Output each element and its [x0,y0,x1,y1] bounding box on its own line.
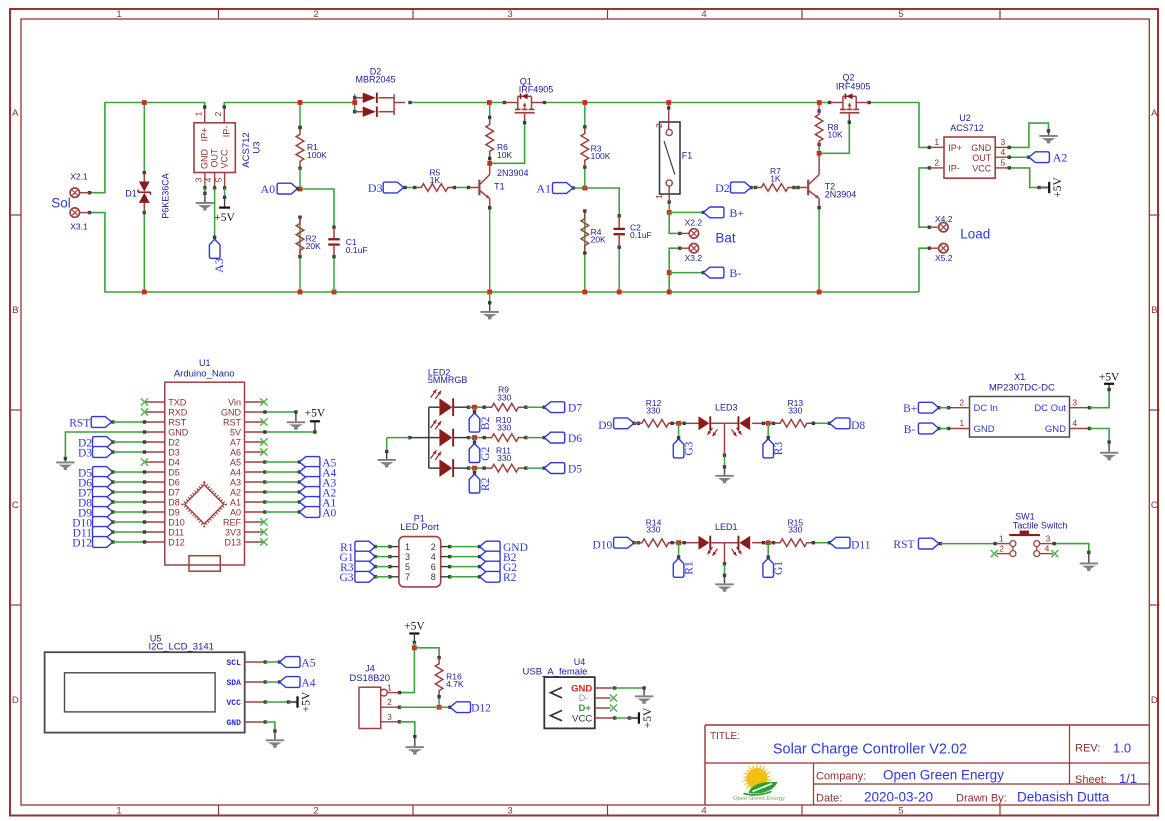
svg-text:RST: RST [223,417,242,427]
svg-text:X4.2: X4.2 [935,214,953,224]
svg-text:VCC: VCC [220,149,230,169]
wire T2 emitter to ground rail [818,208,820,292]
svg-text:1.0: 1.0 [1113,741,1131,756]
svg-text:2: 2 [213,111,223,116]
svg-text:D5: D5 [168,467,180,477]
svg-text:+5V: +5V [642,707,654,728]
svg-text:GND: GND [200,149,210,170]
net flag D3 [383,182,404,193]
svg-text:D-: D- [579,693,589,703]
wire D1 bottom stub [143,213,145,292]
svg-text:1: 1 [959,418,964,428]
svg-text:D1: D1 [125,188,137,198]
svg-text:D9: D9 [598,420,612,432]
connector pad X2.2 [689,229,698,238]
TVS diode D1 [143,173,145,182]
net flag R1 (below left) [678,543,680,557]
X1 pin 1 GND [949,428,970,430]
net flag D7 (U1) [93,487,114,498]
net flag D8 (U1) [93,497,114,508]
svg-text:2: 2 [313,806,318,817]
MOSFET Q2 IRF4905 [828,101,831,104]
wire T1 emitter to ground rail [489,208,491,292]
svg-text:D4: D4 [168,457,180,467]
U5 pins SCL SDA VCC GND [245,661,266,663]
svg-text:7: 7 [405,572,410,582]
ground at main rail [489,303,491,311]
svg-text:GND: GND [974,424,995,435]
svg-text:+5V: +5V [305,407,326,419]
net flag G2 (LED2) [474,438,476,443]
net flag A2 [1029,152,1050,163]
svg-text:2N3904: 2N3904 [497,168,529,178]
LED LED1 right diode [739,536,750,550]
svg-text:A1: A1 [230,497,241,507]
svg-text:2: 2 [313,9,318,20]
wire D2 cathode to Q1 source [410,102,505,104]
capacitor C2 [618,216,620,229]
wire F1 top stub [668,103,670,110]
svg-text:GND: GND [971,143,992,153]
wire R6 top stub [489,103,491,118]
LED LED3 left diode [699,416,710,430]
resistor R1 [296,128,304,167]
svg-text:Load: Load [960,227,990,242]
wire R15 to D11 [813,542,829,544]
svg-text:3: 3 [1072,397,1077,407]
svg-text:5MMRGB: 5MMRGB [428,375,468,385]
transistor T2 2N3904 [798,187,807,189]
svg-text:1: 1 [194,111,204,116]
svg-text:USB_A_female: USB_A_female [523,666,588,677]
wire Q2 drain to U2 IP+ [869,103,929,148]
ground at LED1 [724,575,726,583]
svg-text:D5: D5 [568,463,582,475]
svg-text:2: 2 [387,697,392,707]
svg-text:U1: U1 [199,358,211,368]
wire LED3 junction left [672,422,684,424]
connector J4 box [359,687,381,728]
net flag D12 [450,702,471,713]
svg-text:SCL: SCL [226,659,241,668]
svg-text:T1: T1 [494,182,505,192]
ground at LED3 [724,467,726,475]
svg-text:C: C [1151,500,1158,511]
svg-text:SDA: SDA [226,679,241,688]
net flag D3 (U1) [93,447,114,458]
svg-text:A1: A1 [536,181,551,195]
net flag A1 (U1) [263,500,266,503]
diode D2 MBR2045 [355,97,363,99]
svg-text:+5V: +5V [1099,371,1120,383]
svg-text:D10: D10 [168,517,185,527]
U4 chevrons [551,688,563,698]
svg-text:X2.1: X2.1 [70,172,88,182]
svg-text:ACS712: ACS712 [241,132,252,167]
connector pad X3.1 [70,208,79,217]
net flag B2 (P1 right) [450,556,480,558]
frame column tick marks [218,9,220,19]
svg-text:GND: GND [221,407,242,417]
wire LED3 junction right [752,422,763,424]
svg-text:4: 4 [1045,544,1050,554]
svg-text:U3: U3 [251,141,262,153]
wire Q1 drain rail to Q2 source [544,102,829,104]
net flag A5 (U5) [280,657,301,668]
wire SW1 pin3 to ground [1054,544,1089,553]
ground at X1 [1108,442,1110,452]
wire U3 VCC stub [224,188,226,197]
wire SDA to A4 [265,681,279,683]
svg-text:IRF4905: IRF4905 [836,81,871,91]
ground at U4 [643,688,645,695]
svg-text:X3.1: X3.1 [70,222,88,232]
svg-text:1: 1 [405,542,410,552]
svg-text:D3: D3 [368,181,383,195]
ground at J4 [414,737,416,747]
U1 left pins [145,401,165,403]
svg-text:B: B [1151,305,1157,316]
svg-text:+5V: +5V [301,691,313,712]
svg-text:OUT: OUT [972,153,992,163]
svg-text:5V: 5V [230,427,241,437]
LED LED1 left diode [699,536,710,550]
J4 pin 1 [381,689,388,696]
wire LED1 junction left [672,542,684,544]
net flag A0 [277,183,298,194]
svg-text:1K: 1K [430,175,441,185]
svg-text:LED1: LED1 [715,522,738,532]
wire R2 column [299,168,301,189]
wire battery node to X2.2 [669,212,680,233]
svg-text:2N3904: 2N3904 [825,190,857,200]
+5V at U3 VCC [224,197,226,207]
svg-text:A6: A6 [230,447,241,457]
svg-text:A5: A5 [301,657,315,669]
svg-text:GND: GND [226,719,241,728]
wire D5 to flag [526,467,544,469]
svg-text:330: 330 [788,525,802,535]
connector pad X4.2 [939,223,948,232]
wire R3 top stub [584,103,586,127]
svg-text:Open Green Energy: Open Green Energy [883,768,1004,783]
svg-text:+5V: +5V [404,621,425,633]
svg-text:D: D [1151,695,1158,706]
svg-text:G3: G3 [683,441,695,455]
net flag R2 (LED2) [474,468,476,473]
svg-text:Tactile Switch: Tactile Switch [1013,521,1068,531]
svg-text:B-: B- [904,424,916,436]
wire R1 top stub [299,103,301,128]
wire X1 GND to ground [1090,429,1110,443]
net flag G2 (P1 right) [450,566,480,568]
U1 MCU diamond symbol [183,483,226,526]
svg-text:MP2307DC-DC: MP2307DC-DC [989,382,1055,393]
svg-text:4: 4 [701,9,706,20]
connector pad X3.2 [689,244,698,253]
svg-text:RST: RST [893,539,914,551]
wire U1 GND to ground [65,432,144,459]
svg-text:Arduino_Nano: Arduino_Nano [174,369,235,380]
net flag A4 (U5) [280,677,301,688]
resistor R5 [415,184,454,192]
svg-text:3: 3 [507,806,512,817]
svg-text:1: 1 [654,194,664,199]
svg-text:A4: A4 [301,677,315,689]
net flag D10 (U1) [93,517,114,528]
wire D2 anode tie [354,94,356,113]
svg-text:X5.2: X5.2 [935,253,953,263]
svg-text:4: 4 [431,552,436,562]
svg-text:G2: G2 [480,447,492,461]
svg-text:3: 3 [405,552,410,562]
svg-text:3: 3 [507,9,512,20]
svg-text:3: 3 [387,712,392,722]
wire LED2 common [428,407,430,468]
wire J4 pin2 to D12 flag [400,706,451,708]
svg-text:ACS712: ACS712 [950,123,984,133]
resistor R15 [774,539,813,547]
svg-text:0.1uF: 0.1uF [346,245,368,255]
U4 pin D- [595,697,611,699]
svg-text:D3: D3 [78,447,92,459]
wire D1 top stub [143,103,145,173]
svg-text:Open Green Energy: Open Green Energy [733,796,785,802]
svg-text:D13: D13 [224,537,241,547]
svg-text:3: 3 [1001,137,1006,147]
wire R6 gate link [490,123,525,164]
wire U1 5V to +5V [265,431,315,433]
svg-text:5: 5 [1001,158,1006,168]
wire VCC to +5V [265,701,288,703]
svg-text:Date:: Date: [816,793,842,805]
net flag G3 (below left) [678,423,680,437]
svg-text:A5: A5 [230,457,241,467]
svg-text:20K: 20K [591,235,606,245]
net flag D8 [830,418,851,429]
svg-text:RXD: RXD [168,407,188,417]
svg-text:R2: R2 [503,572,517,584]
net flag D7 (LED2) [544,402,565,413]
svg-text:A4: A4 [230,467,241,477]
U3 pin 4 OUT [214,173,216,188]
svg-text:A7: A7 [230,437,241,447]
svg-text:TITLE:: TITLE: [710,731,740,742]
svg-text:2: 2 [934,158,939,168]
svg-text:Bat: Bat [715,231,736,246]
svg-text:1: 1 [116,9,121,20]
resistor R6 [486,118,494,157]
wire D7 to flag [526,406,544,408]
wire node B+ flag [669,211,703,213]
svg-text:330: 330 [646,525,660,535]
+5V feed (J4/R16) [409,632,419,634]
svg-text:1: 1 [116,806,121,817]
net flag D6 (U1) [93,477,114,488]
wire node A0 row [281,189,334,227]
svg-text:R1: R1 [683,561,695,575]
svg-text:X1: X1 [1014,372,1025,382]
svg-text:2020-03-20: 2020-03-20 [864,790,933,805]
wire X3.2 to B- node [669,248,680,292]
ground at U1 GND [64,459,66,462]
J4 pin 3 [381,721,400,723]
ground at U3 pin3 [204,193,206,202]
module U5 I2C_LCD box [45,652,245,732]
capacitor C1 [333,227,335,239]
P1 pins 1-8 [390,546,399,548]
wire RST to SW1 [940,543,995,545]
resistor R11 [486,464,525,472]
svg-text:4: 4 [1072,418,1077,428]
net flag RST (U1) [91,417,112,428]
fuse F1 [660,122,681,194]
U1 no-connect marks [141,398,148,405]
svg-text:D9: D9 [168,507,180,517]
svg-text:330: 330 [497,423,511,433]
svg-text:Solar Charge Controller V2.02: Solar Charge Controller V2.02 [773,742,967,758]
resistor R8 [815,108,823,147]
net flag D12 (U1) [93,537,114,548]
net flag D11 (U1) [93,527,114,538]
resistor R16 [435,658,443,697]
svg-text:RST: RST [69,417,90,429]
svg-text:D: D [12,695,19,706]
U2 pin 1 [929,146,944,148]
resistor R12 [636,420,675,428]
svg-text:10K: 10K [497,150,512,160]
wire solar- (X3.1 down to ground rail) [90,213,920,292]
svg-text:4: 4 [701,806,706,817]
svg-text:Vin: Vin [228,397,241,407]
net flag A2 (U1) [263,490,266,493]
wire R8 top stub [818,103,820,112]
wire LED2 anode to ground [410,437,429,439]
transistor T1 2N3904 [469,187,479,189]
svg-text:GND: GND [1045,424,1066,435]
svg-text:B2: B2 [480,416,492,430]
svg-text:3: 3 [194,177,204,182]
wire X1 DC Out to +5V [1090,390,1110,408]
wire U3 IP- to D2 anodes [224,103,354,109]
svg-text:A0: A0 [322,507,336,519]
svg-text:A: A [12,108,19,119]
wire F1 to battery node [668,202,670,212]
+5V at U5 VCC [289,701,298,703]
svg-text:5: 5 [898,806,903,817]
svg-text:D2: D2 [168,437,180,447]
net flag D9 (U1) [93,507,114,518]
+5V at U2 VCC [1039,186,1049,188]
LED LED3 center link [711,422,737,424]
X1 pin 3 DC Out [1070,407,1090,409]
wire R4 column [584,167,586,188]
net flag G1 (below right) [767,543,769,557]
connector P1 box [399,537,441,587]
LED LED1 center link [711,542,737,544]
svg-text:Drawn By:: Drawn By: [956,793,1007,805]
wire R5 to T1 base [454,187,468,189]
svg-text:IP+: IP+ [948,143,962,153]
wire D3 to R5 [405,187,415,189]
svg-text:4: 4 [1001,147,1006,157]
U3 pin 3 GND [204,173,206,188]
svg-text:LED Port: LED Port [400,522,439,533]
svg-text:D6: D6 [568,433,582,445]
net flag GND (P1 right) [450,546,480,548]
wire C2 bottom [618,247,620,292]
MOSFET Q1 IRF4905 [503,101,506,104]
svg-text:RST: RST [168,417,187,427]
svg-text:DC In: DC In [974,403,998,414]
wire U3 OUT to A3 flag [214,188,216,237]
svg-text:100K: 100K [591,151,611,161]
net flag A1 [553,183,574,194]
svg-text:X2.2: X2.2 [685,218,703,228]
wire D2flag to R7 [751,187,756,189]
svg-text:IRF4905: IRF4905 [519,85,554,95]
svg-text:P6KE36CA: P6KE36CA [161,173,171,219]
svg-text:REV:: REV: [1075,743,1100,755]
svg-text:D7: D7 [568,402,582,414]
svg-text:REF: REF [223,517,242,527]
ground at LED2 [386,452,388,460]
svg-text:D7: D7 [168,487,180,497]
svg-text:R3: R3 [773,442,785,456]
wire U2 OUT to A2 flag [1009,156,1029,158]
net flag D2 [731,182,752,193]
net flag A5 (U1) [263,460,266,463]
svg-text:IP-: IP- [948,163,960,173]
U2 pin 4 [995,156,1009,158]
resistor R9 [486,403,525,411]
wire solar+ rail (left to U3 IP+) [90,103,205,193]
wire U3 GND stub [204,188,206,193]
U4 pin VCC [595,717,615,719]
svg-text:VCC: VCC [972,163,992,173]
U2 pin 5 [995,167,1009,169]
IC U3 ACS712 box [194,123,235,173]
resistor R13 [774,420,813,428]
svg-text:D12: D12 [471,703,491,715]
connector U4 USB_A_female box [544,677,595,728]
svg-text:U2: U2 [959,113,971,123]
wire U2 VCC to +5V [1009,168,1039,188]
svg-text:1K: 1K [770,174,781,184]
svg-text:3: 3 [1046,533,1051,543]
svg-text:330: 330 [497,392,511,402]
svg-text:Company:: Company: [816,771,866,783]
net flag R3 (below right) [767,423,769,437]
svg-text:8: 8 [431,572,436,582]
wire C1 bottom [333,257,335,292]
svg-text:DS18B20: DS18B20 [349,673,390,684]
svg-text:IP-: IP- [222,126,232,138]
svg-text:Sol: Sol [51,196,71,211]
U2 pin 3 [995,146,1009,148]
U3 pin 5 VCC [224,173,226,188]
X1 pin 4 GND [1070,428,1090,430]
net flag D6 (LED2) [544,432,565,443]
+5V at U4 VCC [630,717,639,719]
wire node A1 row [573,188,619,216]
resistor R4 [581,213,589,252]
resistor R7 [755,184,794,192]
svg-text:D10: D10 [592,539,612,551]
net flag R2 (P1 right) [450,576,480,578]
wire U1 GND(right) to ground [265,411,296,413]
svg-text:100K: 100K [307,150,327,160]
